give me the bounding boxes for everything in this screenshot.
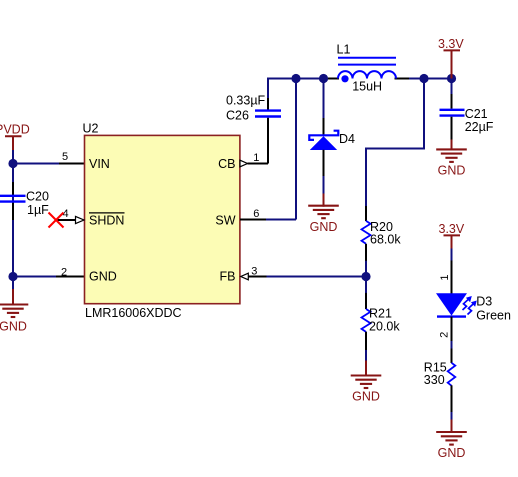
capacitor C20 <box>0 182 49 220</box>
svg-text:2: 2 <box>439 332 451 338</box>
wire GND net left <box>13 276 56 278</box>
resistor R20 <box>362 206 402 277</box>
resistor R21 <box>362 277 401 363</box>
node junction 3.3V/C21 <box>447 74 456 83</box>
wire top SW/boot rail <box>267 78 452 80</box>
capacitor C26 <box>226 94 281 164</box>
node junction SW/C26 <box>291 74 300 83</box>
pin 1 CB stub with output arrow <box>240 152 268 167</box>
pin 4 SHDN stub with input arrow <box>56 208 84 224</box>
svg-text:GND: GND <box>352 390 380 404</box>
svg-text:6: 6 <box>253 208 259 220</box>
pin 3 FB stub with input arrow <box>241 266 267 280</box>
capacitor C21 <box>440 79 494 142</box>
svg-text:5: 5 <box>62 151 68 163</box>
svg-text:0.33µF: 0.33µF <box>226 94 266 108</box>
svg-text:C26: C26 <box>226 109 249 123</box>
power flag 3.3V LED <box>439 222 465 249</box>
svg-text:C20: C20 <box>26 189 49 203</box>
svg-text:330: 330 <box>424 373 445 387</box>
ground below C20 <box>0 289 28 333</box>
IC U2 LMR16006XDDC <box>83 122 240 320</box>
svg-text:FB: FB <box>220 270 236 284</box>
no-ERC marker red X on SHDN <box>49 213 64 228</box>
wire VIN net <box>13 163 59 165</box>
svg-text:SHDN: SHDN <box>89 214 124 228</box>
svg-text:D3: D3 <box>476 295 492 309</box>
LED D3 <box>436 261 511 342</box>
svg-text:1: 1 <box>253 152 259 164</box>
wire SW net horizontal <box>266 219 296 221</box>
svg-text:PVDD: PVDD <box>0 123 30 137</box>
wire SW net vertical <box>295 79 297 220</box>
ground below D4 <box>308 194 339 234</box>
svg-text:4: 4 <box>63 208 69 220</box>
wire R15 to ground <box>451 412 453 421</box>
svg-text:GND: GND <box>89 270 117 284</box>
power flag 3.3V top <box>438 37 464 79</box>
svg-text:C21: C21 <box>465 107 488 121</box>
svg-text:GND: GND <box>438 446 466 460</box>
pin 6 SW stub <box>240 208 266 220</box>
power flag PVDD <box>0 123 30 151</box>
pin 5 VIN stub <box>59 151 85 163</box>
svg-text:LMR16006XDDC: LMR16006XDDC <box>85 306 182 320</box>
wire LED to R15 <box>451 341 453 350</box>
svg-text:15uH: 15uH <box>352 79 382 93</box>
wire PVDD vertical rail <box>12 150 14 290</box>
node PVDD/VIN junction <box>8 159 17 168</box>
ground below R21 <box>351 361 382 404</box>
svg-text:Green: Green <box>476 308 511 322</box>
svg-text:68.0k: 68.0k <box>370 232 401 246</box>
node junction D4 <box>319 74 328 83</box>
svg-text:1: 1 <box>439 274 451 280</box>
svg-text:3: 3 <box>251 266 257 278</box>
svg-text:VIN: VIN <box>89 157 110 171</box>
svg-text:22µF: 22µF <box>465 120 494 134</box>
svg-text:3.3V: 3.3V <box>439 222 465 236</box>
svg-text:20.0k: 20.0k <box>369 320 400 334</box>
svg-text:3.3V: 3.3V <box>438 37 464 51</box>
svg-text:D4: D4 <box>339 132 355 146</box>
wire FB net <box>267 276 367 278</box>
inductor L1 <box>328 43 409 94</box>
svg-text:GND: GND <box>310 220 338 234</box>
wire CB to top rail <box>267 79 269 99</box>
node junction L1 out <box>419 74 428 83</box>
node GND/C20 junction <box>8 272 17 281</box>
pin 2 GND stub <box>56 267 85 279</box>
wire L1 out to FB divider <box>366 79 424 209</box>
ground below C21 <box>436 140 467 178</box>
svg-text:2: 2 <box>61 267 67 279</box>
svg-text:SW: SW <box>215 214 235 228</box>
svg-text:R21: R21 <box>369 307 392 321</box>
svg-text:L1: L1 <box>337 43 351 57</box>
wire 3.3V to LED <box>451 249 453 263</box>
svg-text:GND: GND <box>438 164 466 178</box>
resistor R15 <box>424 349 456 413</box>
diode D4 (Schottky) <box>309 79 355 196</box>
svg-text:1µF: 1µF <box>27 203 49 217</box>
svg-text:GND: GND <box>0 319 27 333</box>
svg-text:U2: U2 <box>83 122 99 136</box>
ground below R15 <box>436 420 467 461</box>
svg-text:CB: CB <box>218 157 235 171</box>
node FB junction <box>361 272 370 281</box>
